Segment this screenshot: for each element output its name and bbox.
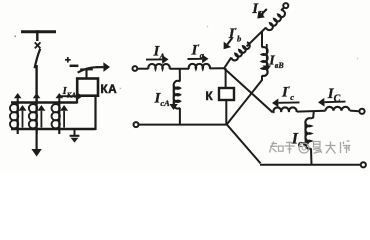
- svg-text:IКА: IКА: [62, 85, 77, 100]
- svg-text:IA: IA: [153, 44, 166, 62]
- svg-text:I′a: I′a: [191, 42, 205, 60]
- svg-text:Ic: Ic: [291, 131, 303, 151]
- svg-text:К: К: [206, 89, 214, 103]
- svg-text:IB: IB: [251, 1, 264, 19]
- svg-text:I′b: I′b: [228, 25, 241, 43]
- svg-text:I′c: I′c: [281, 84, 294, 102]
- svg-text:IC: IC: [327, 86, 341, 105]
- svg-text:IcA: IcA: [154, 91, 171, 109]
- svg-text:IвB: IвB: [268, 54, 284, 71]
- svg-text:КА: КА: [101, 82, 118, 96]
